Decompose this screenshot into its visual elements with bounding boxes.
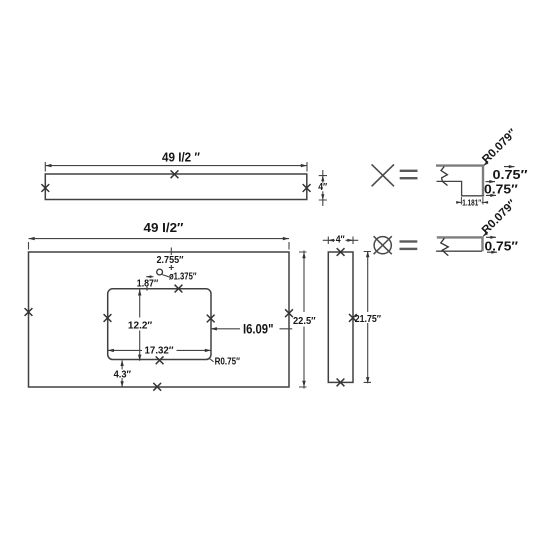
X mark side view left edge: [41, 184, 49, 192]
svg-text:1.87″: 1.87″: [137, 278, 159, 289]
svg-text:49 I/2″: 49 I/2″: [144, 220, 184, 235]
svg-text:17.32″: 17.32″: [145, 346, 174, 357]
label R0.75: [209, 357, 240, 368]
svg-text:1.181″: 1.181″: [462, 198, 481, 207]
dimension 0.75 detail crossed-circle: [485, 236, 519, 254]
dimension 49 1/2 top view: [29, 220, 290, 250]
dimension 4 end view: [323, 235, 359, 246]
X mark cutout bottom edge: [156, 356, 164, 364]
legend equals after crossed-circle: [400, 240, 418, 250]
legend X symbol: [372, 164, 394, 186]
X mark top view bottom edge: [153, 383, 161, 391]
sink cutout outline: [108, 289, 211, 360]
svg-text:I6.09": I6.09": [243, 321, 274, 337]
svg-text:49 I/2 ″: 49 I/2 ″: [162, 149, 200, 164]
dimension 21.75: [355, 251, 381, 383]
side view outline: [45, 174, 307, 200]
dimension 1.181 detail X: [456, 197, 488, 207]
svg-text:4.3″: 4.3″: [114, 369, 132, 380]
X mark cutout left edge: [104, 314, 112, 322]
svg-text:0.75″: 0.75″: [493, 167, 528, 182]
X mark cutout top edge: [175, 285, 183, 293]
svg-text:ø1.375″: ø1.375″: [169, 272, 197, 283]
dimension 4.3: [113, 360, 133, 387]
X mark side view right edge: [303, 184, 311, 192]
dimension 1.87: [137, 275, 159, 290]
label R0.079 detail X: [480, 127, 519, 166]
end view outline: [328, 252, 353, 382]
svg-text:4″: 4″: [318, 182, 327, 193]
svg-text:12.2″: 12.2″: [128, 320, 152, 331]
top view outline: [29, 252, 290, 387]
X mark end view top edge: [337, 248, 345, 256]
dimension 16.09: [211, 321, 293, 337]
edge profile detail crossed-circle: [436, 236, 482, 255]
X mark side view top edge: [171, 170, 179, 178]
svg-text:21.75″: 21.75″: [355, 314, 381, 325]
X mark top view right edge: [285, 309, 293, 317]
svg-text:0.75″: 0.75″: [485, 238, 519, 253]
svg-text:0.75″: 0.75″: [484, 182, 518, 197]
dimension 2.755: [157, 248, 184, 271]
legend crossed-circle symbol: [374, 236, 392, 254]
dimension 17.32: [108, 346, 211, 357]
dimension 49 1/2 side view: [45, 149, 307, 171]
label R0.079 detail crossed-circle: [480, 197, 519, 236]
svg-text:4″: 4″: [336, 235, 345, 246]
dimension 0.75 upper detail X: [493, 165, 528, 182]
X mark cutout right edge: [207, 315, 215, 323]
svg-text:R0.75″: R0.75″: [215, 357, 241, 368]
faucet hole circle: [157, 269, 163, 275]
X mark end view right edge: [349, 314, 357, 322]
svg-text:22.5″: 22.5″: [293, 315, 316, 327]
dimension 0.75 lower detail X: [484, 180, 518, 197]
label diameter 1.375: [162, 272, 197, 283]
dimension 22.5 right side: [293, 251, 316, 389]
svg-text:2.755″: 2.755″: [157, 255, 184, 266]
edge profile detail X: [436, 165, 484, 197]
dimension 12.2: [128, 289, 152, 361]
X mark top view left edge: [25, 308, 33, 316]
dimension 4 side view thickness: [317, 170, 328, 206]
legend equals after X: [400, 170, 418, 180]
X mark end view bottom edge: [337, 379, 345, 387]
